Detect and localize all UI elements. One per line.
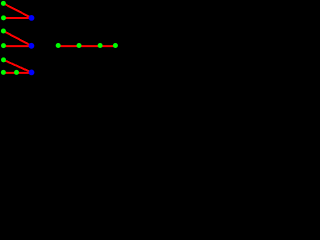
node A1 xyxy=(1,1,6,6)
node B3 xyxy=(29,70,35,76)
node C1 xyxy=(56,43,61,48)
wire A3-B2 xyxy=(3,31,31,46)
wire A2-B1 xyxy=(4,17,32,19)
node C2 xyxy=(77,43,82,48)
node A7 xyxy=(14,70,19,75)
node A3 xyxy=(1,29,6,34)
node C4 xyxy=(113,43,118,48)
node A4 xyxy=(1,43,6,48)
node A2 xyxy=(1,15,6,20)
node A6 xyxy=(1,70,6,75)
node A5 xyxy=(1,57,6,62)
wire C1-C4 chain xyxy=(58,45,115,47)
wire A1-B1 xyxy=(3,3,31,18)
background xyxy=(0,0,118,77)
wire A5-B3 xyxy=(4,60,32,73)
node B2 xyxy=(29,43,35,49)
wire A6-A7-B3 xyxy=(3,72,31,74)
node C3 xyxy=(98,43,103,48)
wire A4-B2 xyxy=(4,45,32,47)
node B1 xyxy=(29,15,35,21)
